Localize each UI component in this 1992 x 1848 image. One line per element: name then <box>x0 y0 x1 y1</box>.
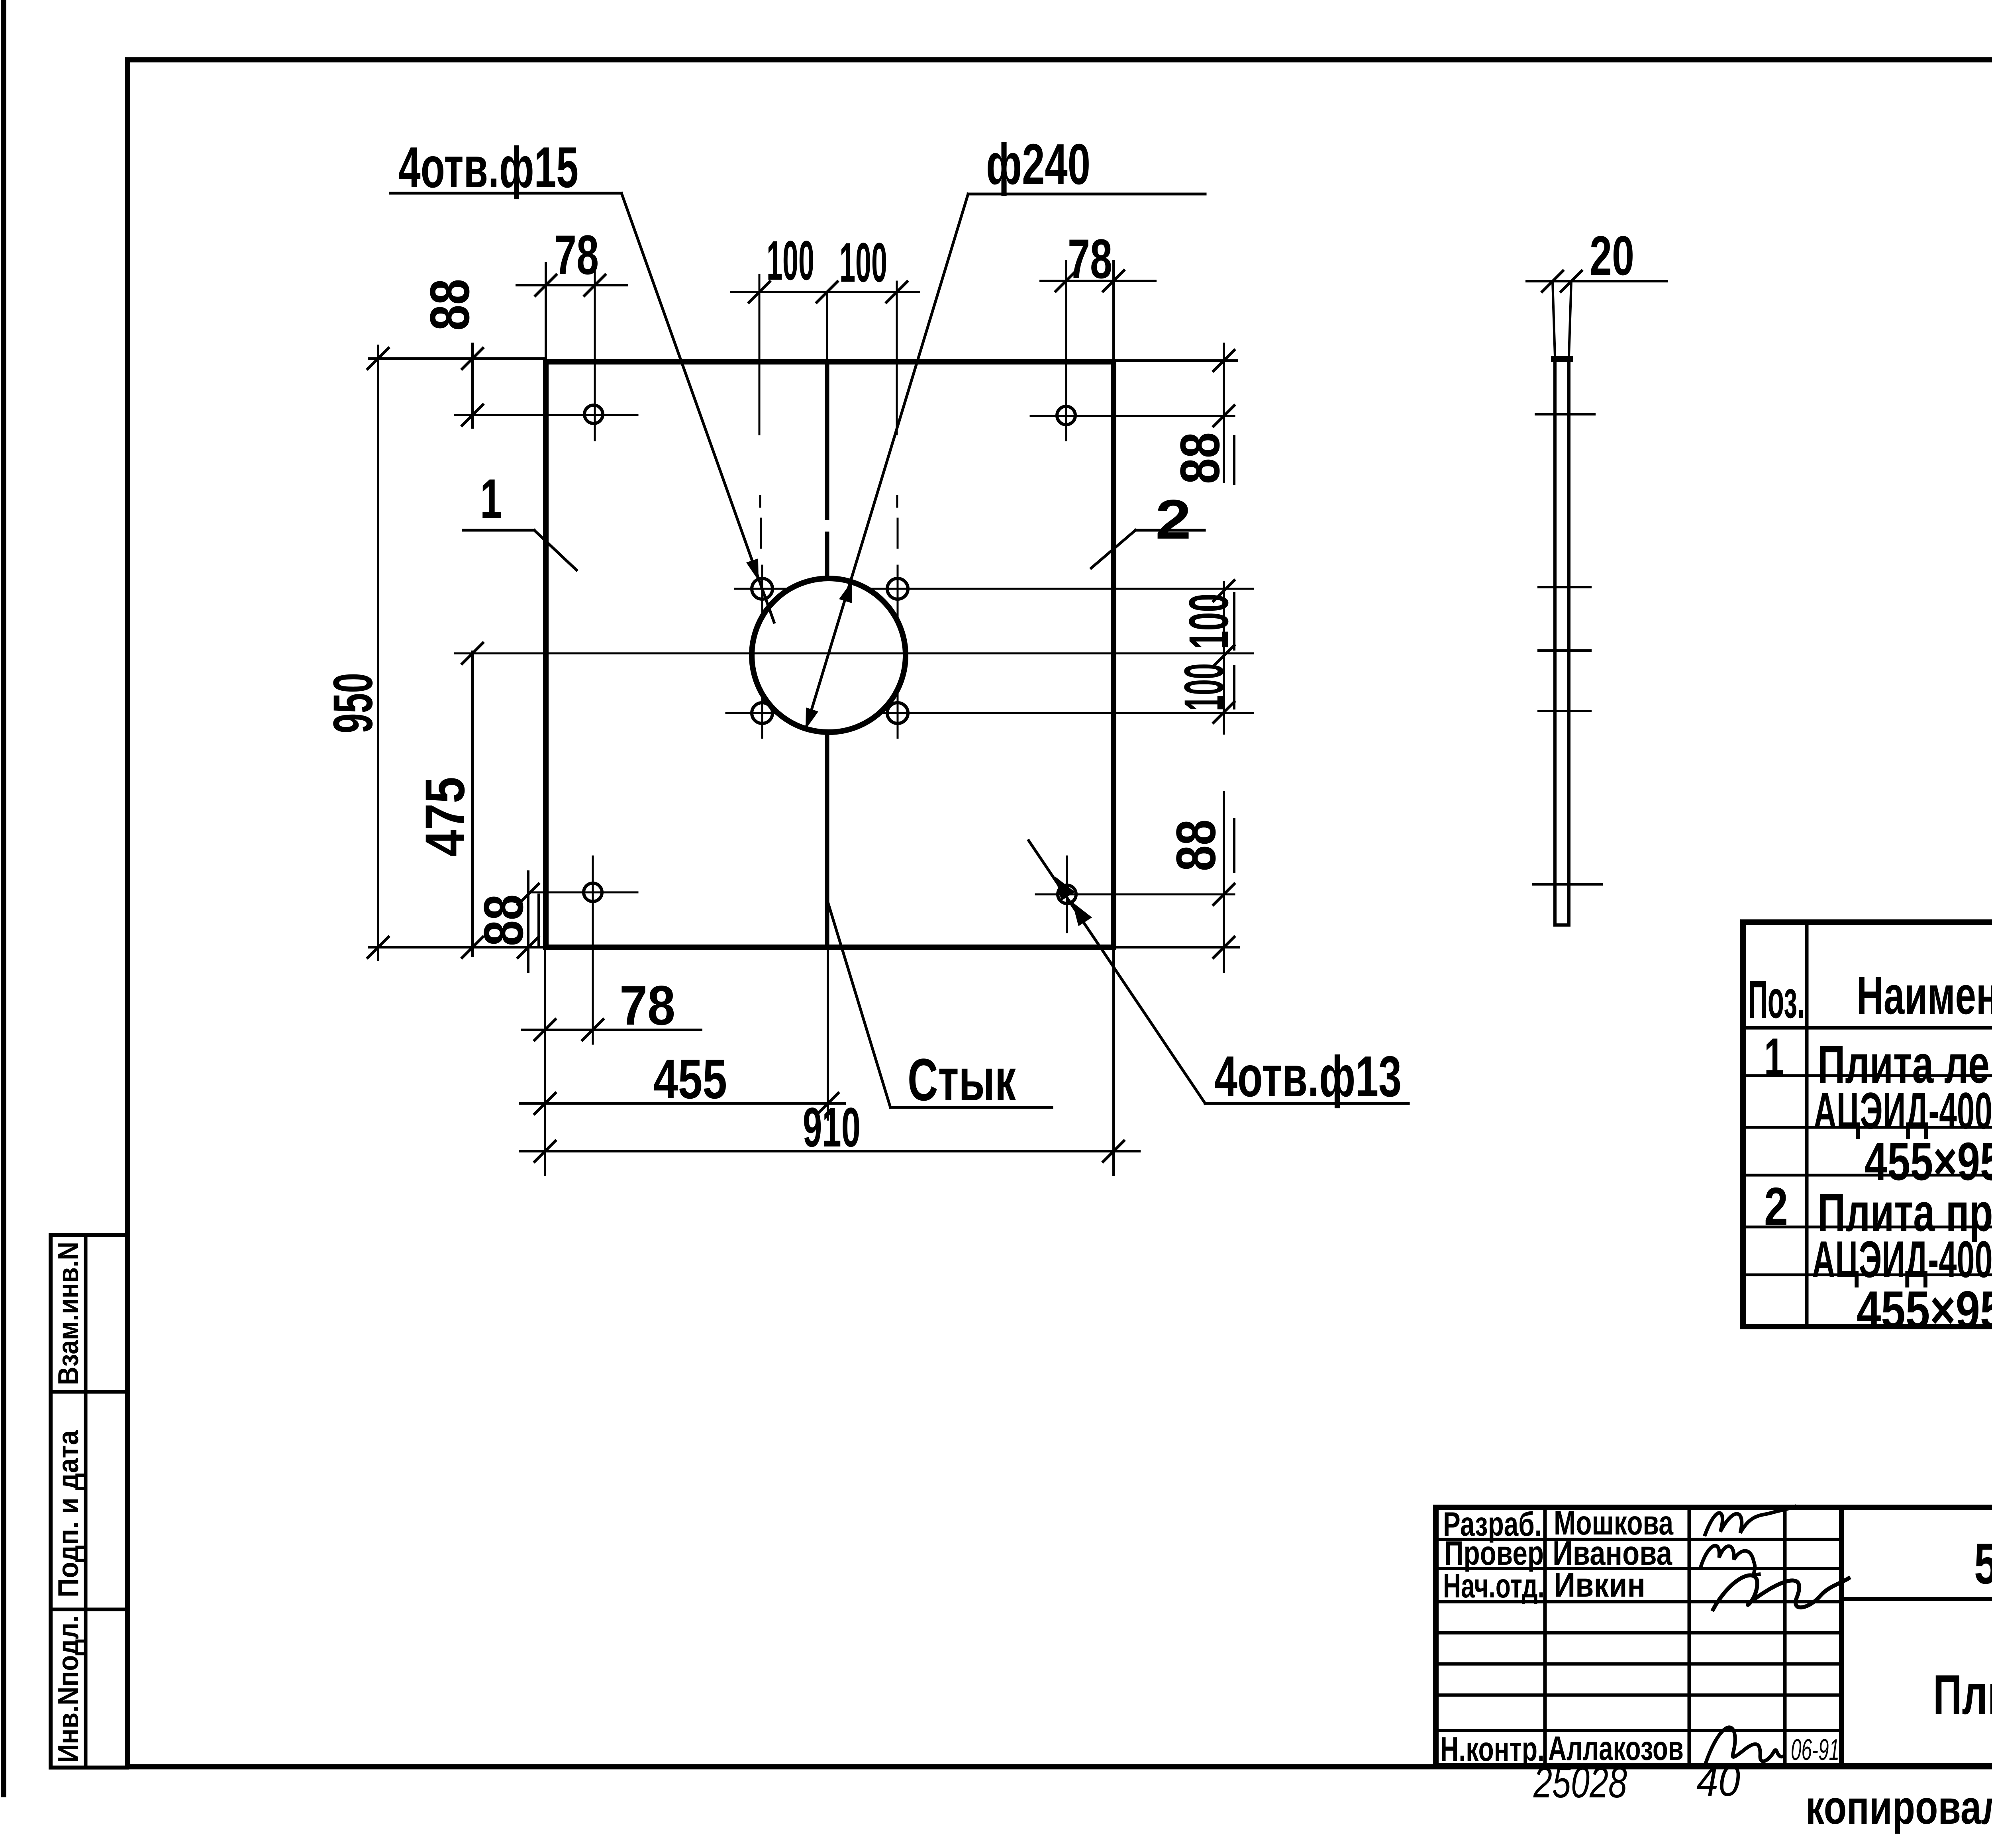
svg-text:455×950×20: 455×950×20 <box>1857 1280 1992 1340</box>
title block row 3 <box>1436 1600 1841 1603</box>
plate right edge <box>1111 362 1116 947</box>
joint line dash-dot piece <box>825 534 829 578</box>
plate bottom edge <box>546 945 1114 950</box>
side view dim 20 extension right <box>1569 281 1571 357</box>
label underline Стык <box>890 1106 1052 1109</box>
table row line 4 <box>1743 1226 1992 1229</box>
underline 100 right-lower <box>1233 666 1235 708</box>
position leader 1 tail <box>534 530 576 570</box>
parts table outer border <box>1743 922 1992 1327</box>
ф13 bottom-right hole horizontal centerline <box>1036 894 1234 896</box>
hole ф13 top-right <box>1057 406 1075 425</box>
side view tick row ф13 bottom <box>1533 883 1602 886</box>
ф13 top-right hole vertical centerline <box>1065 261 1067 440</box>
circle horizontal centerline <box>455 653 1253 655</box>
position leader 2 tail <box>1091 530 1135 568</box>
doc number field bottom line <box>1841 1597 1992 1601</box>
label underline Ф240 <box>968 193 1205 196</box>
svg-text:78: 78 <box>554 223 599 286</box>
ф15 bottom row centerline right part <box>879 712 1253 714</box>
hole ф15 bottom-left <box>752 703 772 723</box>
title block row 1 <box>1436 1538 1841 1541</box>
dim line 88 bottom-left <box>527 872 529 972</box>
extension line plate bottom-left <box>369 946 546 948</box>
svg-text:06-91: 06-91 <box>1791 1733 1839 1766</box>
title block row 2 <box>1436 1567 1841 1570</box>
side view dim 20 extension left <box>1553 281 1555 357</box>
extension plate right edge down <box>1112 947 1115 1175</box>
arrowhead 4отв.ф15 <box>746 559 759 581</box>
signature Аллакозов <box>1705 1727 1784 1765</box>
title block column line A <box>1543 1507 1547 1766</box>
hole ф15 bottom-right <box>887 703 908 723</box>
joint line lower segment <box>825 733 829 947</box>
underline 88 bottom-right <box>1233 819 1235 872</box>
underline 88 top-right <box>1233 436 1235 484</box>
svg-text:1: 1 <box>480 467 502 530</box>
joint line upper segment <box>825 362 829 518</box>
svg-text:88: 88 <box>472 894 535 946</box>
ф13 bottom-right hole vertical centerline <box>1066 856 1068 932</box>
position leader 2 underline <box>1135 529 1204 532</box>
right dim stack segment 2 <box>1223 582 1225 733</box>
svg-text:910: 910 <box>803 1096 861 1158</box>
svg-text:40: 40 <box>1696 1756 1740 1805</box>
svg-text:Взам.инв.N: Взам.инв.N <box>53 1242 84 1385</box>
leader 4отв.ф15 <box>622 193 774 622</box>
side view tick row ф15 bottom <box>1539 710 1590 712</box>
title block outer border <box>1436 1507 1992 1766</box>
side view tick row ф13 top <box>1536 413 1594 415</box>
title block column line B <box>1688 1507 1691 1766</box>
ф13 top-left hole vertical centerline <box>594 263 596 440</box>
svg-text:Стык: Стык <box>908 1046 1016 1113</box>
svg-text:5.407-139.1-26: 5.407-139.1-26 <box>1974 1531 1992 1596</box>
svg-text:25028: 25028 <box>1533 1758 1627 1807</box>
svg-text:4отв.ф15: 4отв.ф15 <box>398 135 578 200</box>
hole ф13 bottom-left <box>584 883 602 901</box>
dim line 78 bottom-left <box>522 1029 701 1031</box>
left margin stamp box <box>51 1235 127 1768</box>
hole ф15 top-left <box>752 578 772 599</box>
leader 4отв.ф13 <box>1029 841 1205 1103</box>
scan left edge bar <box>1 0 6 1795</box>
svg-text:ф240: ф240 <box>986 132 1090 196</box>
table row line 3 <box>1743 1174 1992 1177</box>
title block row 4 <box>1436 1631 1841 1634</box>
table row line 2 <box>1743 1126 1992 1129</box>
central hole circle Ф240 <box>752 578 906 732</box>
ф13 bottom-left hole vertical centerline <box>592 856 594 1044</box>
left stamp cell divider 2 <box>51 1608 127 1611</box>
dim line 455 <box>520 1102 845 1105</box>
svg-text:100: 100 <box>839 231 887 294</box>
signature Мошкова <box>1705 1507 1795 1534</box>
ф13 top-right hole horizontal centerline <box>1031 415 1234 417</box>
dim line 78 top-left <box>517 284 627 286</box>
svg-text:950: 950 <box>322 673 384 733</box>
arrowhead 4отв.ф13 outer <box>1072 902 1092 926</box>
svg-text:Наименование: Наименование <box>1857 965 1992 1025</box>
svg-text:78: 78 <box>620 974 675 1037</box>
extension plate left edge down <box>544 947 546 1175</box>
arrowhead Ф240 upper <box>839 581 852 603</box>
dim line 475 left <box>471 652 474 956</box>
side view tick row center <box>1539 649 1590 652</box>
leader Стык <box>827 898 890 1107</box>
left stamp inner vertical divider <box>84 1235 88 1768</box>
hole ф13 top-left <box>584 405 603 423</box>
side view tick row ф15 top <box>1539 586 1590 588</box>
ф15 bottom row centerline left part <box>726 712 778 714</box>
svg-text:Нач.отд.: Нач.отд. <box>1443 1567 1545 1605</box>
table row line 1 <box>1743 1074 1992 1077</box>
ф13 bottom-left hole horizontal centerline <box>530 892 637 894</box>
signature Ивкин <box>1713 1575 1849 1609</box>
svg-text:88: 88 <box>1169 432 1231 484</box>
extension plate left edge up <box>545 263 547 362</box>
title block column line D <box>1839 1507 1844 1766</box>
side view dim 20 line <box>1527 280 1667 282</box>
extension line plate top-left <box>369 357 546 360</box>
ф15 top row centerline left part <box>735 588 790 590</box>
svg-text:Поз.: Поз. <box>1748 969 1805 1029</box>
plate top edge <box>546 359 1114 365</box>
table row line 5 <box>1743 1274 1992 1276</box>
svg-text:20: 20 <box>1590 224 1634 287</box>
label underline 4отв.ф13 <box>1205 1102 1408 1105</box>
side view plate outline <box>1555 357 1569 925</box>
svg-text:88: 88 <box>418 279 481 331</box>
leader Ф240 diameter line <box>806 194 968 729</box>
svg-text:2: 2 <box>1764 1176 1788 1237</box>
ф15 top row centerline right part <box>867 588 1253 590</box>
dim line 910 <box>520 1150 1139 1152</box>
svg-text:Ивкин: Ивкин <box>1554 1566 1645 1604</box>
ф15 right column centerline segments <box>896 282 898 434</box>
title block column line C <box>1783 1507 1787 1766</box>
svg-text:копировал: Барковская: копировал: Барковская <box>1806 1781 1992 1834</box>
ф15 left column centerline segments <box>759 275 761 434</box>
right dim stack segment 1 <box>1223 344 1225 482</box>
dim line 950 left <box>377 346 379 960</box>
hole ф13 bottom-right <box>1058 885 1076 903</box>
svg-text:88: 88 <box>1165 819 1227 871</box>
title block row 7 <box>1436 1729 1841 1732</box>
svg-text:Н.контр.: Н.контр. <box>1440 1730 1545 1768</box>
svg-text:100: 100 <box>1172 663 1235 711</box>
svg-text:Провер: Провер <box>1444 1534 1544 1572</box>
title block row 6 <box>1436 1693 1841 1697</box>
svg-text:4отв.ф13: 4отв.ф13 <box>1214 1044 1402 1109</box>
side view top cap thick <box>1554 356 1570 362</box>
svg-text:100: 100 <box>767 229 814 292</box>
svg-text:2: 2 <box>1155 488 1191 551</box>
svg-text:475: 475 <box>414 777 476 856</box>
svg-text:78: 78 <box>1068 227 1112 290</box>
svg-text:Подп. и дата: Подп. и дата <box>53 1430 84 1597</box>
table column divider Поз <box>1805 922 1809 1327</box>
extension line plate top-right <box>1114 359 1237 362</box>
plate left edge <box>543 362 549 947</box>
svg-text:Плита П1: Плита П1 <box>1933 1663 1992 1726</box>
dim line 88 top-left <box>471 344 474 427</box>
right dim stack segment 3 <box>1223 792 1225 972</box>
arrowhead 4отв.ф13 inner <box>1055 876 1075 901</box>
extension line plate bottom-right <box>1114 946 1239 948</box>
svg-text:100: 100 <box>1177 594 1240 649</box>
title block row 5 <box>1436 1662 1841 1666</box>
svg-text:455: 455 <box>653 1048 727 1110</box>
svg-text:Инв.Nподл.: Инв.Nподл. <box>53 1615 84 1763</box>
signature Иванова <box>1701 1546 1759 1574</box>
underline 100 right-upper <box>1233 593 1235 649</box>
underline 88 bottom-left <box>537 895 540 947</box>
ф13 top-left hole horizontal centerline <box>455 414 637 416</box>
extension joint line down <box>827 947 829 1119</box>
svg-text:1: 1 <box>1764 1027 1784 1087</box>
dim line 78 top-right <box>1041 280 1155 282</box>
table header bottom line <box>1743 1026 1992 1030</box>
left stamp cell divider 1 <box>51 1390 127 1394</box>
label underline 4отв.ф15 <box>390 192 622 195</box>
hole ф15 top-right <box>887 578 908 599</box>
dim line 100 100 top <box>731 291 919 293</box>
position leader 1 underline <box>463 529 534 532</box>
arrowhead Ф240 lower <box>806 707 818 729</box>
extension plate right edge up <box>1112 261 1115 362</box>
extension joint line up <box>826 292 828 362</box>
